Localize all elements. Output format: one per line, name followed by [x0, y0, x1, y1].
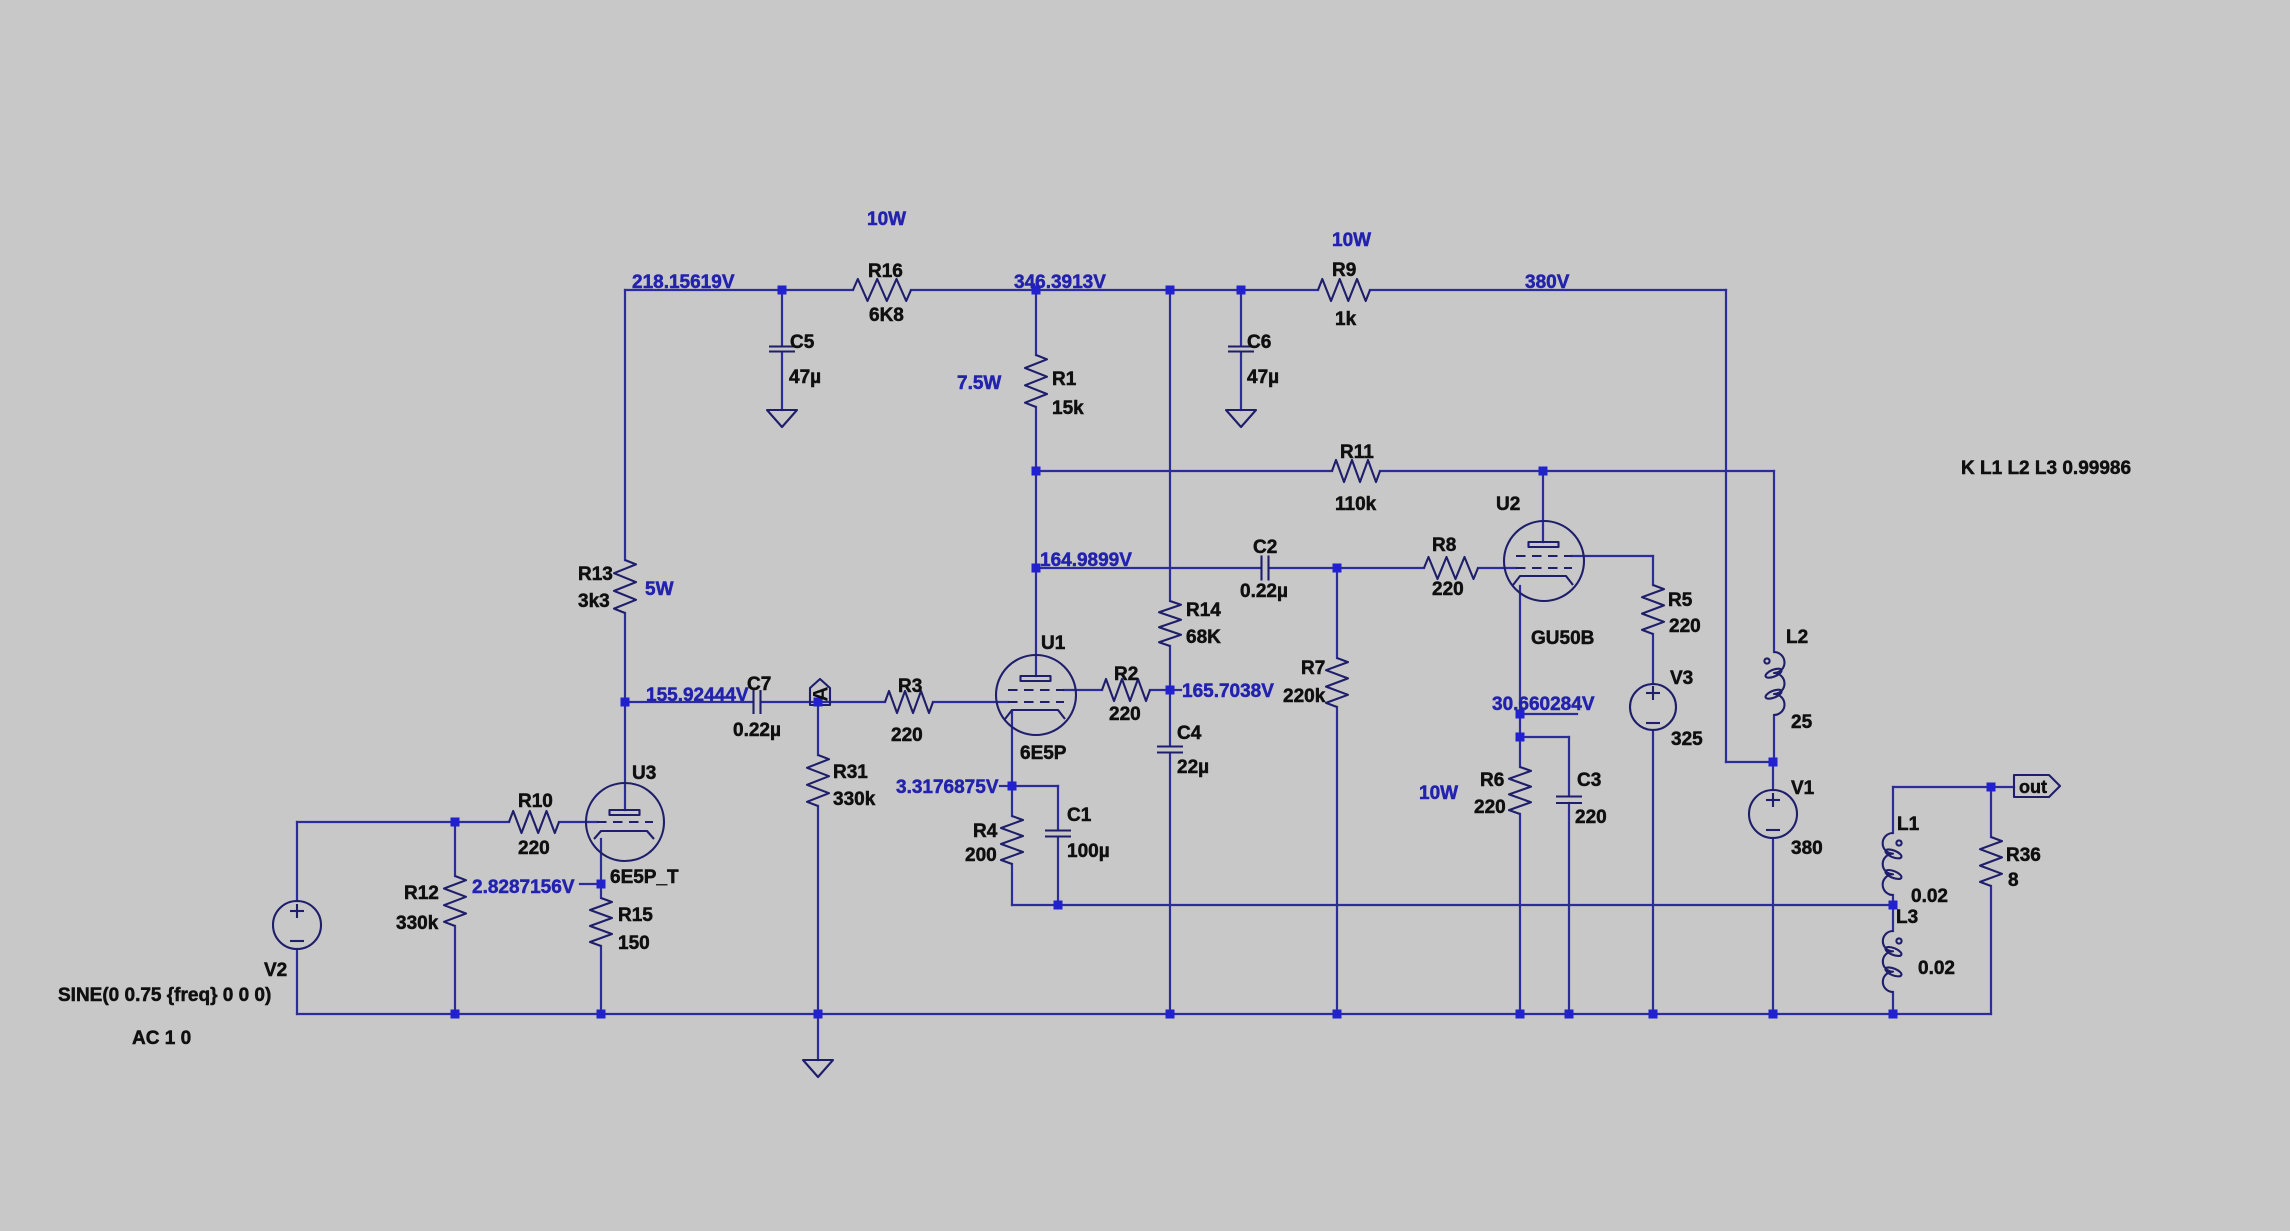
svg-text:3.3176875V: 3.3176875V — [896, 777, 999, 798]
svg-text:10W: 10W — [1332, 230, 1371, 251]
svg-text:AC 1 0: AC 1 0 — [132, 1028, 191, 1049]
svg-text:330k: 330k — [833, 789, 876, 810]
svg-text:165.7038V: 165.7038V — [1182, 681, 1274, 702]
svg-text:220: 220 — [1109, 704, 1141, 725]
svg-text:0.02: 0.02 — [1918, 958, 1955, 979]
svg-text:1k: 1k — [1335, 309, 1357, 330]
svg-text:220: 220 — [518, 838, 550, 859]
svg-text:U1: U1 — [1041, 633, 1066, 654]
svg-text:47µ: 47µ — [789, 367, 821, 388]
svg-text:47µ: 47µ — [1247, 367, 1279, 388]
svg-text:R4: R4 — [973, 821, 998, 842]
svg-text:L2: L2 — [1786, 627, 1808, 648]
svg-text:R31: R31 — [833, 762, 868, 783]
svg-text:R9: R9 — [1332, 260, 1356, 281]
svg-text:0.22µ: 0.22µ — [733, 720, 781, 741]
svg-text:V1: V1 — [1791, 778, 1815, 799]
svg-text:GU50B: GU50B — [1531, 628, 1594, 649]
svg-text:C2: C2 — [1253, 537, 1277, 558]
svg-text:220: 220 — [1432, 579, 1464, 600]
svg-text:R14: R14 — [1186, 600, 1221, 621]
svg-text:380V: 380V — [1525, 272, 1570, 293]
svg-text:346.3913V: 346.3913V — [1014, 272, 1106, 293]
svg-text:R3: R3 — [898, 676, 922, 697]
svg-text:25: 25 — [1791, 712, 1813, 733]
svg-text:R8: R8 — [1432, 535, 1456, 556]
svg-text:V3: V3 — [1670, 668, 1693, 689]
svg-text:110k: 110k — [1335, 494, 1377, 515]
svg-text:R11: R11 — [1340, 442, 1374, 463]
svg-text:15k: 15k — [1052, 398, 1084, 419]
svg-text:R12: R12 — [404, 883, 439, 904]
svg-text:330k: 330k — [396, 913, 439, 934]
svg-text:220: 220 — [891, 725, 923, 746]
svg-text:L3: L3 — [1896, 907, 1918, 928]
svg-text:K L1 L2 L3 0.99986: K L1 L2 L3 0.99986 — [1961, 458, 2131, 479]
svg-text:out: out — [2019, 777, 2047, 797]
svg-text:R15: R15 — [618, 905, 653, 926]
svg-text:220k: 220k — [1283, 686, 1326, 707]
svg-text:0.22µ: 0.22µ — [1240, 581, 1288, 602]
svg-text:6E5P: 6E5P — [1020, 743, 1067, 764]
svg-text:R5: R5 — [1668, 590, 1693, 611]
svg-text:R36: R36 — [2006, 845, 2041, 866]
svg-text:2.8287156V: 2.8287156V — [472, 877, 575, 898]
svg-text:220: 220 — [1669, 616, 1701, 637]
svg-text:C3: C3 — [1577, 770, 1601, 791]
svg-text:6K8: 6K8 — [869, 305, 904, 326]
svg-text:C1: C1 — [1067, 805, 1092, 826]
svg-text:U3: U3 — [632, 763, 656, 784]
svg-text:200: 200 — [965, 845, 997, 866]
svg-text:R13: R13 — [578, 564, 613, 585]
svg-text:5W: 5W — [645, 579, 674, 600]
svg-text:R10: R10 — [518, 791, 553, 812]
svg-text:164.9899V: 164.9899V — [1040, 550, 1132, 571]
svg-text:7.5W: 7.5W — [957, 373, 1001, 394]
svg-text:30.660284V: 30.660284V — [1492, 694, 1595, 715]
svg-text:0.02: 0.02 — [1911, 886, 1948, 907]
svg-text:380: 380 — [1791, 838, 1823, 859]
svg-text:8: 8 — [2008, 870, 2019, 891]
svg-text:220: 220 — [1575, 807, 1607, 828]
svg-text:220: 220 — [1474, 797, 1506, 818]
svg-text:10W: 10W — [867, 209, 906, 230]
svg-text:150: 150 — [618, 933, 650, 954]
svg-text:325: 325 — [1671, 729, 1703, 750]
svg-text:C5: C5 — [790, 332, 815, 353]
svg-text:R2: R2 — [1114, 664, 1138, 685]
svg-text:3k3: 3k3 — [578, 591, 610, 612]
svg-text:R1: R1 — [1052, 369, 1077, 390]
svg-text:SINE(0 0.75 {freq} 0 0 0): SINE(0 0.75 {freq} 0 0 0) — [58, 985, 271, 1006]
svg-text:L1: L1 — [1897, 814, 1920, 835]
svg-text:155.92444V: 155.92444V — [646, 685, 749, 706]
svg-text:A: A — [810, 686, 833, 701]
svg-text:22µ: 22µ — [1177, 757, 1209, 778]
svg-text:C4: C4 — [1177, 723, 1202, 744]
svg-text:C6: C6 — [1247, 332, 1271, 353]
svg-text:10W: 10W — [1419, 783, 1458, 804]
svg-text:R16: R16 — [868, 261, 903, 282]
svg-text:R7: R7 — [1301, 658, 1325, 679]
svg-text:V2: V2 — [264, 960, 287, 981]
svg-text:6E5P_T: 6E5P_T — [610, 867, 679, 888]
svg-text:C7: C7 — [747, 674, 771, 695]
svg-text:218.15619V: 218.15619V — [632, 272, 735, 293]
svg-text:U2: U2 — [1496, 494, 1520, 515]
svg-text:R6: R6 — [1480, 770, 1504, 791]
svg-text:68K: 68K — [1186, 627, 1221, 648]
svg-text:100µ: 100µ — [1067, 841, 1110, 862]
